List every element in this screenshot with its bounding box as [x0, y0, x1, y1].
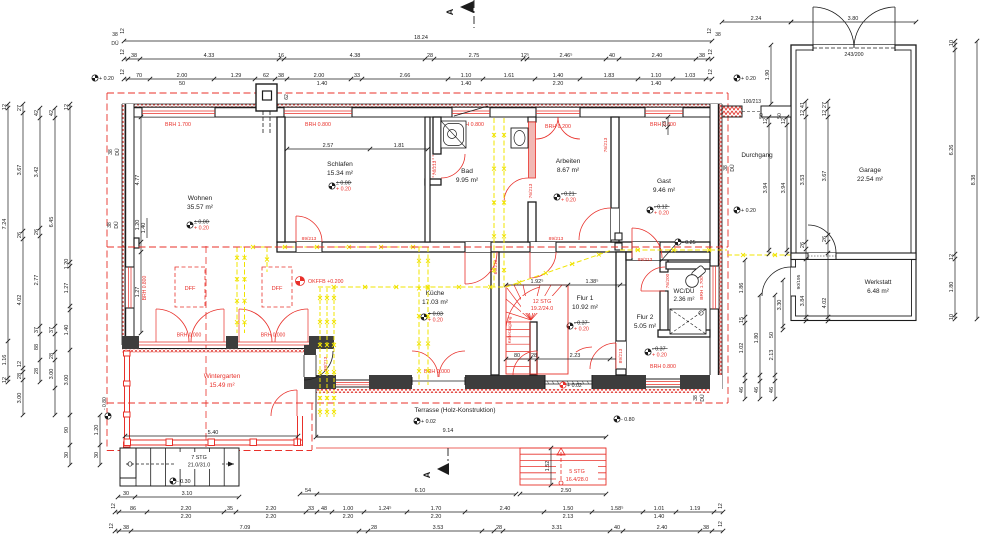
svg-text:DFF: DFF — [185, 286, 196, 292]
svg-text:2.50: 2.50 — [561, 488, 572, 494]
stairs 7STG label — [176, 452, 222, 469]
svg-text:BRH 0.200: BRH 0.200 — [545, 124, 571, 130]
svg-text:3.53: 3.53 — [433, 525, 444, 531]
svg-text:15.49 m²: 15.49 m² — [209, 382, 234, 389]
svg-text:1.80: 1.80 — [949, 282, 955, 293]
svg-text:2.66: 2.66 — [400, 73, 411, 79]
svg-text:3.94: 3.94 — [781, 183, 787, 194]
stair enclosure wall — [530, 322, 537, 375]
svg-text:28: 28 — [531, 353, 537, 359]
svg-text:3.84: 3.84 — [800, 296, 806, 307]
svg-text:1.10: 1.10 — [651, 73, 662, 79]
door Flur1 top (89/213) — [530, 242, 556, 252]
svg-text:1.19: 1.19 — [690, 506, 701, 512]
cellar stair 12 STG — [506, 285, 568, 374]
svg-text:12: 12 — [718, 503, 724, 509]
svg-text:46: 46 — [739, 387, 745, 393]
svg-text:28: 28 — [371, 525, 377, 531]
svg-text:2.57: 2.57 — [323, 143, 334, 149]
svg-text:3.67: 3.67 — [17, 165, 23, 176]
svg-text:38: 38 — [723, 165, 729, 171]
svg-text:- 0.37: - 0.37 — [574, 320, 588, 326]
level marker Wohnen — [187, 219, 210, 231]
south west glazing front — [122, 342, 316, 352]
svg-text:2.20: 2.20 — [181, 514, 192, 520]
left dim col E — [64, 102, 72, 467]
svg-text:42: 42 — [49, 110, 55, 116]
svg-text:7 STG: 7 STG — [191, 455, 207, 461]
svg-text:2.24: 2.24 — [751, 16, 762, 22]
svg-text:12⁵: 12⁵ — [521, 52, 529, 59]
stair dim 80/28/2.23 — [504, 353, 616, 361]
svg-text:Schlafen: Schlafen — [327, 161, 353, 168]
svg-text:12: 12 — [111, 503, 117, 509]
wall WC bottom — [658, 330, 710, 337]
svg-text:BRH 0.800: BRH 0.800 — [650, 364, 676, 370]
svg-text:28: 28 — [427, 53, 433, 59]
svg-text:9.46 m²: 9.46 m² — [653, 187, 676, 194]
bottom dim row2 — [113, 525, 725, 533]
level marker -0.80 — [614, 416, 635, 423]
svg-text:4.38: 4.38 — [350, 53, 361, 59]
svg-text:- 0.30: - 0.30 — [177, 479, 191, 485]
svg-text:50: 50 — [777, 113, 783, 119]
svg-text:15.34 m²: 15.34 m² — [327, 170, 354, 177]
dim 1.92/1.38 — [504, 278, 626, 287]
svg-text:A: A — [445, 8, 455, 15]
garage/werkstatt dividing wall — [791, 253, 916, 260]
svg-text:2.46⁵: 2.46⁵ — [560, 52, 573, 59]
svg-text:A: A — [422, 471, 432, 478]
svg-text:DÜ: DÜ — [699, 394, 706, 402]
window Bad north BRH 0.800 — [452, 107, 490, 117]
svg-text:6.10: 6.10 — [415, 488, 426, 494]
svg-text:2.20: 2.20 — [431, 514, 442, 520]
svg-text:3.53: 3.53 — [800, 175, 806, 186]
wc dims a — [739, 258, 747, 401]
svg-text:3.80: 3.80 — [848, 16, 859, 22]
svg-text:1.40: 1.40 — [553, 73, 564, 79]
svg-text:2.40: 2.40 — [657, 525, 668, 531]
yellow line durchgang to garage — [727, 253, 791, 257]
yellow line to garage — [620, 248, 727, 252]
svg-text:- 0.21: - 0.21 — [561, 191, 575, 197]
svg-text:1.40: 1.40 — [654, 514, 665, 520]
window Wohnen north BRH 1.700 — [142, 107, 215, 117]
svg-text:100/213: 100/213 — [743, 99, 761, 105]
yellow line horizontal dff zone — [237, 245, 429, 249]
dim 1.90 vertical — [765, 43, 773, 106]
wall Bad/Arbeiten lower — [528, 202, 536, 242]
door Bad east (76/213) — [504, 178, 528, 202]
durchgang wall stub east — [761, 106, 791, 117]
left dim col D — [49, 106, 57, 417]
level marker Gast outside -0.25 — [675, 239, 696, 246]
svg-text:1.40: 1.40 — [461, 81, 472, 87]
svg-text:2.13: 2.13 — [769, 350, 775, 361]
window kueche south small — [336, 380, 369, 387]
svg-text:2.36 m²: 2.36 m² — [674, 296, 695, 303]
svg-text:10: 10 — [949, 40, 955, 46]
svg-text:2.20: 2.20 — [343, 514, 354, 520]
svg-text:+ 0.20: + 0.20 — [574, 327, 589, 333]
west wall window (BRH 0.800 rotated) — [125, 267, 134, 308]
svg-text:6.45: 6.45 — [49, 217, 55, 228]
svg-text:1.61: 1.61 — [504, 73, 515, 79]
svg-text:4.33: 4.33 — [204, 53, 215, 59]
svg-text:1.38⁵: 1.38⁵ — [586, 278, 599, 285]
left dim col F — [94, 413, 102, 467]
insulation envelope dashed boundary top — [107, 92, 728, 94]
svg-text:2.00: 2.00 — [177, 73, 188, 79]
yellow horizontal kueche — [318, 285, 506, 289]
svg-text:+ 0.02: + 0.02 — [567, 383, 582, 389]
door 88/213 jog — [304, 351, 333, 380]
svg-text:1.70: 1.70 — [431, 506, 442, 512]
svg-text:2.23: 2.23 — [570, 353, 581, 359]
window Flur2 south BRH 0.800 — [646, 379, 680, 387]
insulation envelope dashed boundary right — [727, 93, 729, 403]
svg-text:40: 40 — [609, 53, 615, 59]
svg-text:16.4/28.0: 16.4/28.0 — [566, 477, 588, 483]
yellow lines through jog door to terrace — [318, 288, 336, 417]
bottom dim row1 — [113, 505, 725, 520]
wc dims c — [769, 293, 777, 401]
svg-text:18.24: 18.24 — [414, 35, 428, 41]
svg-text:8.38: 8.38 — [971, 175, 977, 186]
svg-text:Garage: Garage — [859, 167, 881, 174]
svg-text:76/213: 76/213 — [603, 137, 609, 152]
svg-text:12: 12 — [949, 254, 955, 260]
svg-text:+ 0.20: + 0.20 — [194, 226, 209, 232]
svg-text:1.80: 1.80 — [754, 333, 760, 344]
svg-text:12: 12 — [707, 28, 713, 34]
svg-text:12: 12 — [120, 49, 126, 55]
svg-text:30: 30 — [94, 452, 100, 458]
wc dims b — [754, 293, 762, 401]
left dim col B — [17, 102, 25, 417]
svg-text:38: 38 — [131, 53, 137, 59]
level marker +0.20 top right — [734, 75, 756, 82]
svg-text:70: 70 — [136, 73, 142, 79]
svg-text:+ 0.20: + 0.20 — [741, 208, 756, 214]
wintergarten right wall red — [298, 416, 303, 446]
svg-text:+ 0.20: + 0.20 — [336, 187, 351, 193]
svg-text:3.94: 3.94 — [763, 183, 769, 194]
svg-text:+ 0.20: + 0.20 — [741, 76, 756, 82]
kueche south french doors BRH 0.000 — [412, 377, 465, 385]
svg-text:BRH 0.000: BRH 0.000 — [261, 333, 286, 339]
svg-text:4.77: 4.77 — [135, 175, 141, 186]
svg-text:1.20: 1.20 — [94, 425, 100, 436]
insulation envelope dashed boundary left — [106, 93, 108, 451]
svg-text:89/213: 89/213 — [638, 257, 653, 263]
svg-text:38: 38 — [112, 32, 118, 38]
stairs 7 STG — [120, 448, 239, 486]
svg-text:3.00: 3.00 — [64, 375, 70, 386]
svg-text:40: 40 — [614, 525, 620, 531]
OKFFB marker — [296, 277, 344, 286]
door frame blocks gast — [615, 233, 622, 240]
level marker garage +0.20 — [855, 145, 877, 152]
svg-text:Terrasse (Holz-Konstruktion): Terrasse (Holz-Konstruktion) — [415, 407, 496, 414]
top dim row 2 — [122, 52, 714, 61]
svg-text:2.20: 2.20 — [266, 514, 277, 520]
top dim row 3 — [122, 73, 714, 87]
yellow vertical pair dff b — [243, 247, 247, 333]
svg-text:12: 12 — [17, 361, 23, 367]
svg-text:23: 23 — [662, 121, 668, 127]
wall Bad/Arbeiten red prewall — [529, 122, 536, 178]
svg-text:1.29: 1.29 — [231, 73, 242, 79]
wall Flur1/Flur2 — [616, 252, 626, 375]
svg-text:2.40: 2.40 — [500, 506, 511, 512]
svg-text:+ 0.20: + 0.20 — [654, 211, 669, 217]
svg-text:9.95 m²: 9.95 m² — [456, 177, 479, 184]
left inner vdim — [135, 115, 143, 335]
svg-text:38: 38 — [108, 149, 114, 155]
yellow line bad vertical pair — [492, 118, 496, 287]
door Arbeiten north BRH 0.200 — [536, 107, 580, 117]
svg-text:16: 16 — [278, 53, 284, 59]
svg-text:12 STG: 12 STG — [533, 299, 552, 305]
yellow vertical kitchen pair a — [417, 247, 421, 385]
envelope dashed mid line — [107, 246, 728, 248]
wall Wohnen/Schlafen — [277, 117, 285, 242]
svg-text:1.81: 1.81 — [394, 143, 405, 149]
svg-text:28: 28 — [496, 525, 502, 531]
washbasin Bad — [511, 128, 528, 148]
terrace edge bottom — [316, 436, 606, 438]
dim 8.38 — [971, 39, 979, 321]
dim 5.40 — [123, 430, 300, 438]
svg-text:12: 12 — [718, 521, 724, 527]
level marker -0.30 stairs — [170, 478, 191, 485]
svg-text:35: 35 — [227, 506, 233, 512]
section line A top — [445, 0, 474, 28]
svg-text:27: 27 — [17, 105, 23, 111]
svg-text:1.58⁵: 1.58⁵ — [611, 505, 624, 512]
south exterior wall east part: piers — [316, 375, 722, 393]
svg-text:76/213: 76/213 — [432, 160, 438, 175]
svg-text:62: 62 — [284, 94, 290, 100]
svg-text:1.83: 1.83 — [604, 73, 615, 79]
svg-text:26: 26 — [822, 236, 828, 242]
svg-text:Arbeiten: Arbeiten — [556, 158, 581, 165]
svg-text:3.00: 3.00 — [17, 393, 23, 404]
level marker Gast — [647, 204, 670, 216]
svg-text:Wintergarten: Wintergarten — [204, 373, 241, 380]
svg-text:30: 30 — [64, 452, 70, 458]
svg-text:12: 12 — [2, 104, 8, 110]
svg-text:88/213: 88/213 — [323, 356, 329, 371]
svg-text:26: 26 — [800, 242, 806, 248]
werkstatt room — [791, 260, 916, 321]
wintergarten door in right wall — [271, 390, 297, 416]
svg-text:3.67: 3.67 — [822, 171, 828, 182]
svg-text:89/213: 89/213 — [302, 236, 317, 242]
svg-text:1.40: 1.40 — [317, 81, 328, 87]
stairs 5 STG red — [520, 448, 606, 485]
svg-text:41: 41 — [800, 102, 806, 108]
stair label 12 STG — [521, 296, 563, 313]
svg-text:2.20: 2.20 — [553, 81, 564, 87]
svg-text:OKFFB +0.200: OKFFB +0.200 — [308, 279, 344, 285]
svg-text:12: 12 — [64, 104, 70, 110]
svg-text:+ 0.20: + 0.20 — [652, 353, 667, 359]
svg-text:19.2/24.0: 19.2/24.0 — [531, 306, 553, 312]
svg-text:76/213: 76/213 — [528, 183, 534, 198]
svg-text:90/195: 90/195 — [796, 274, 802, 289]
svg-text:33: 33 — [308, 506, 314, 512]
door Gast (89/213) — [632, 242, 660, 260]
svg-text:1.24⁵: 1.24⁵ — [379, 505, 392, 512]
svg-text:54: 54 — [305, 488, 311, 494]
svg-text:48: 48 — [321, 506, 327, 512]
wintergarten left wall red — [124, 350, 131, 447]
svg-text:2.00: 2.00 — [314, 73, 325, 79]
svg-text:38: 38 — [278, 73, 284, 79]
svg-text:28: 28 — [34, 368, 40, 374]
left dim col A — [2, 102, 10, 384]
svg-text:3.30: 3.30 — [777, 300, 783, 311]
svg-text:12: 12 — [120, 69, 126, 75]
dashed joint line west — [205, 246, 207, 447]
insulation envelope dashed boundary bottom — [107, 402, 728, 404]
5stg label — [556, 466, 598, 484]
svg-text:38: 38 — [693, 395, 699, 401]
svg-text:8.67 m²: 8.67 m² — [557, 167, 580, 174]
svg-text:6.48 m²: 6.48 m² — [867, 288, 889, 295]
svg-text:35.57 m²: 35.57 m² — [187, 204, 214, 211]
dim 30 3.10 — [116, 491, 241, 499]
svg-text:1.10: 1.10 — [461, 73, 472, 79]
dim 54 6.10 — [298, 488, 518, 496]
svg-text:2.20: 2.20 — [181, 506, 192, 512]
dim 3.67 4.02 — [822, 99, 830, 323]
svg-text:DÜ: DÜ — [114, 148, 121, 156]
svg-text:- 0.25: - 0.25 — [682, 240, 696, 246]
svg-text:- 0.12: - 0.12 — [654, 204, 668, 210]
svg-text:BRH 1.700: BRH 1.700 — [165, 122, 191, 128]
svg-text:1.01: 1.01 — [654, 506, 665, 512]
svg-text:DÜ: DÜ — [113, 221, 120, 229]
svg-text:12: 12 — [109, 523, 115, 529]
wall Bad/Arbeiten upper — [528, 117, 536, 122]
svg-text:33: 33 — [354, 73, 360, 79]
level marker Arbeiten — [554, 191, 577, 203]
shower WC/DU — [670, 309, 706, 334]
svg-text:3.42: 3.42 — [34, 167, 40, 178]
envelope dashed mid line overlay — [107, 246, 728, 248]
window Gast north BRH 0.800 — [645, 107, 683, 117]
svg-text:28: 28 — [49, 353, 55, 359]
window east wall BRH 1.700 — [710, 266, 719, 309]
svg-text:3.00: 3.00 — [49, 369, 55, 380]
stair walk line 5stg — [557, 448, 565, 485]
wall WC top inner — [666, 262, 710, 269]
svg-text:2.40: 2.40 — [652, 53, 663, 59]
svg-text:89/213: 89/213 — [618, 348, 624, 363]
door Schlafen (89/213) — [296, 242, 322, 252]
door Kueche (89/213) — [465, 242, 491, 252]
svg-text:2.77: 2.77 — [34, 275, 40, 286]
north exterior wall — [122, 104, 722, 117]
door WC (76/200) — [641, 267, 665, 291]
wall Schlafen/Bad — [433, 117, 441, 154]
wall Kueche/Flur1 — [491, 252, 499, 375]
svg-text:- 0.80: - 0.80 — [621, 417, 635, 423]
chimney — [256, 84, 277, 133]
wall WC top — [626, 252, 710, 260]
svg-text:+ 0.20: + 0.20 — [561, 198, 576, 204]
werkstatt dims a — [777, 278, 785, 332]
svg-text:26: 26 — [34, 229, 40, 235]
svg-text:Flur 2: Flur 2 — [637, 314, 654, 321]
svg-text:- 0.80: - 0.80 — [102, 397, 108, 410]
wintergarten bottom wall red — [124, 439, 303, 446]
svg-text:DFF: DFF — [272, 286, 283, 292]
top dim total 18.24 — [122, 35, 714, 43]
svg-text:4.02: 4.02 — [822, 298, 828, 309]
svg-text:1.90: 1.90 — [765, 70, 771, 81]
svg-text:7.09: 7.09 — [240, 525, 251, 531]
garage outer walls — [791, 45, 916, 259]
entry door flur1 south — [545, 375, 592, 389]
section line A bottom — [422, 448, 449, 478]
svg-text:1.27: 1.27 — [135, 287, 141, 298]
svg-text:15: 15 — [739, 317, 745, 323]
svg-text:12: 12 — [800, 110, 806, 116]
dim 1.52 — [545, 446, 553, 487]
level marker left -0.80 — [102, 397, 111, 419]
sw corner pier — [122, 336, 139, 349]
red terrace front edge — [316, 447, 606, 449]
dim 23 — [662, 115, 670, 135]
svg-text:1.52: 1.52 — [545, 461, 551, 472]
svg-text:DÜ: DÜ — [111, 40, 119, 47]
svg-text:Kellerzugang: Kellerzugang — [507, 316, 512, 343]
level marker Flur1 — [567, 320, 590, 332]
svg-text:90: 90 — [64, 427, 70, 433]
svg-text:38: 38 — [699, 53, 705, 59]
svg-text:12: 12 — [2, 377, 8, 383]
insulation envelope dashed boundary bottom west — [107, 450, 312, 452]
level marker Terrasse +0.02 — [414, 418, 436, 425]
svg-text:37: 37 — [34, 327, 40, 333]
svg-text:80: 80 — [514, 353, 520, 359]
svg-text:5.05 m²: 5.05 m² — [634, 323, 657, 330]
svg-text:2.20: 2.20 — [266, 506, 277, 512]
wall Arbeiten/Gast — [611, 117, 619, 242]
svg-text:3.31: 3.31 — [552, 525, 563, 531]
svg-text:17.03 m²: 17.03 m² — [422, 299, 449, 306]
svg-text:50: 50 — [759, 113, 765, 119]
svg-text:38: 38 — [703, 525, 709, 531]
svg-text:- 0.37: - 0.37 — [652, 346, 666, 352]
svg-text:12: 12 — [708, 69, 714, 75]
DFF roof window 1 — [175, 267, 205, 307]
svg-text:1.50: 1.50 — [563, 506, 574, 512]
svg-text:10: 10 — [949, 314, 955, 320]
yellow line bad vertical pair b — [502, 118, 506, 287]
level marker +0.20 top left — [92, 75, 114, 82]
door Bad (76/213) in schlafen/bad wall — [441, 154, 465, 178]
dim 2.50 — [518, 488, 608, 496]
dim 3.94 a — [763, 115, 771, 256]
svg-text:10.92 m²: 10.92 m² — [572, 304, 599, 311]
dim 2.24 — [720, 16, 793, 24]
